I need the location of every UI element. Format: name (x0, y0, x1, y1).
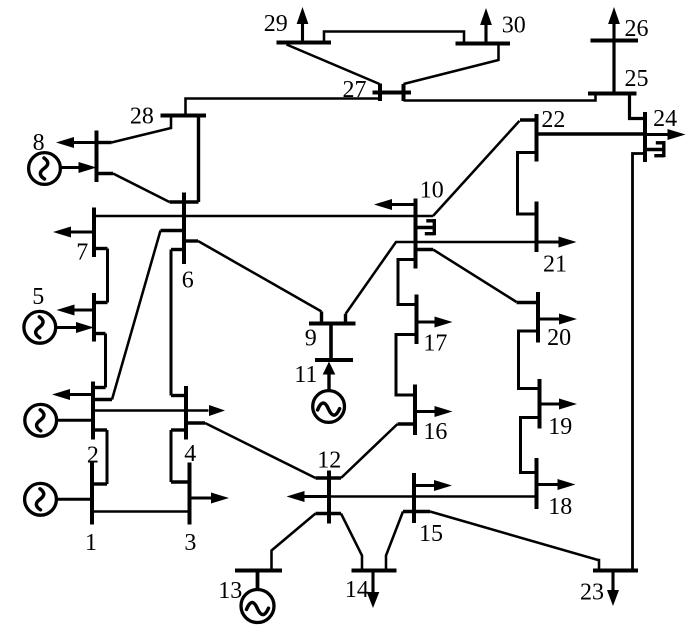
line 6-9 (198, 241, 322, 312)
svg-text:26: 26 (625, 16, 649, 42)
shunt capacitor at bus 24 (662, 141, 665, 157)
load arrow at bus 10 (374, 199, 392, 210)
line 25-27 (404, 94, 596, 101)
line 9-10 (346, 242, 416, 314)
bus 21 bar (535, 202, 539, 253)
load arrow at bus 3 (211, 493, 229, 504)
load arrow at bus 21 (559, 237, 577, 248)
line 22-24 (537, 132, 646, 135)
svg-text:17: 17 (423, 331, 447, 357)
generator lead at bus 1 (56, 498, 92, 501)
bus 14 bar (352, 569, 397, 573)
load arrow at bus 29 (297, 7, 309, 24)
stub at bus 22 top (520, 118, 537, 121)
stub at bus 10 (416, 248, 434, 251)
generator G2 (25, 404, 57, 436)
stub at bus 9 right (344, 314, 347, 324)
step 18-19 (521, 418, 540, 473)
bus 20 bar (536, 292, 540, 343)
bus 4 bar (184, 386, 188, 440)
svg-text:12: 12 (317, 448, 341, 474)
stub at bus 4 top (171, 394, 186, 397)
step 21-22 (518, 153, 537, 215)
line 23-24 (633, 154, 646, 571)
bus 16 bar (413, 385, 417, 436)
bus 26 bar (591, 39, 639, 43)
load arrow at bus 5 (57, 305, 75, 316)
bus 25 bar (588, 92, 637, 96)
bus 28 bar (161, 114, 207, 118)
load arrow at bus 16 (435, 406, 453, 417)
svg-text:13: 13 (218, 578, 242, 604)
line 6-10 (94, 215, 433, 218)
bus 5 bar (92, 293, 96, 342)
svg-text:21: 21 (543, 251, 567, 277)
stub at bus 1 top (92, 482, 107, 485)
line 12-16 (341, 424, 398, 478)
bus 12 bar (327, 471, 331, 524)
load arrow at bus 4 (209, 405, 225, 416)
generator lead at bus 13 (256, 571, 260, 592)
line 2-4 (93, 409, 209, 412)
svg-text:30: 30 (502, 13, 526, 39)
stub at bus 2 bottom (93, 428, 107, 431)
bus 17 bar (415, 295, 419, 345)
stub at bus 8 top (97, 141, 112, 144)
line 27-30 (404, 44, 499, 85)
stub for line 4-12 (186, 421, 205, 424)
line 25-26 (612, 41, 615, 94)
bus 29 bar (277, 41, 332, 45)
bus 8 bar (95, 131, 99, 183)
line 2-5 (104, 334, 107, 388)
line 1-2 (106, 430, 109, 484)
load arrow at bus 7 (53, 227, 71, 238)
svg-text:1: 1 (85, 530, 97, 556)
line 12-13 (272, 514, 316, 571)
svg-text:25: 25 (625, 66, 649, 92)
line 27-28 (186, 99, 381, 116)
load arrow at bus 17 (435, 317, 453, 328)
generator G1 (25, 483, 57, 515)
line 27-29 (287, 45, 380, 85)
load arrow at bus 24 (668, 129, 686, 140)
generator arrow at bus 8 (79, 162, 97, 173)
step 19-20 (519, 331, 540, 389)
line 1-3 (92, 510, 190, 513)
line 12-14 (341, 514, 362, 571)
load arrow at bus 15 (434, 480, 452, 491)
bus 27 right bar (402, 84, 406, 101)
bus 30 bar (456, 42, 511, 46)
lower tick at bus 15 (403, 510, 430, 513)
svg-text:5: 5 (32, 284, 44, 310)
svg-text:7: 7 (76, 239, 88, 265)
svg-text:23: 23 (580, 579, 604, 605)
bus 1 bar (90, 463, 94, 525)
bus 11 bar (315, 358, 353, 362)
shunt capacitor at bus 10 (433, 219, 436, 235)
line 9-11 (329, 324, 333, 361)
stub for line 2-6 (93, 398, 112, 401)
load arrow at bus 14 (367, 592, 380, 608)
bus 10 bar (414, 199, 418, 269)
lower tick at bus 12 (316, 512, 342, 515)
line 15-18 (414, 495, 537, 498)
generator arrow at bus 5 (76, 322, 94, 333)
bus 3 bar (188, 463, 192, 525)
stub at bus 16 (398, 422, 416, 425)
line 8-28 (112, 116, 172, 143)
load arrow at bus 20 (559, 314, 577, 325)
step 16-17 (396, 335, 417, 396)
tick at bus 6 for line 9 (184, 239, 198, 242)
load arrow at bus 18 (558, 479, 576, 490)
line 6-28 (197, 116, 200, 203)
bus 6 bar (182, 193, 186, 265)
bus 13 bar (235, 569, 282, 573)
bus 18 bar (535, 458, 539, 509)
line 4-6 (170, 250, 173, 396)
bus 2 bar (91, 382, 95, 440)
svg-text:9: 9 (305, 326, 317, 352)
stub at bus 8 bottom (97, 172, 114, 175)
stub at bus 5 bottom (94, 332, 106, 335)
bus 15 bar (412, 473, 416, 523)
upper tick at bus 12 (316, 476, 342, 479)
bus 23 bar (593, 569, 638, 573)
line 6-8 (113, 174, 170, 203)
line 5-7 (106, 249, 109, 303)
generator G13 (241, 590, 274, 623)
svg-text:14: 14 (345, 577, 369, 603)
line 2-6 (112, 231, 161, 400)
tick at bus 6 for line 2 (161, 229, 185, 232)
stub at bus 3 top (171, 480, 190, 483)
svg-text:20: 20 (547, 325, 571, 351)
load arrow at bus 23 (607, 590, 619, 606)
stub at bus 4 bottom (171, 428, 186, 431)
svg-text:10: 10 (420, 178, 444, 204)
svg-text:6: 6 (182, 268, 194, 294)
svg-text:29: 29 (264, 11, 288, 37)
bus 19 bar (538, 379, 542, 429)
svg-text:24: 24 (653, 106, 677, 132)
bus 9 bar (309, 322, 356, 326)
bus 7 bar (92, 208, 96, 258)
stub at bus 9 left (320, 312, 323, 324)
line 3-4 (170, 430, 173, 482)
svg-text:11: 11 (294, 362, 317, 388)
generator G8 (29, 153, 61, 185)
line 4-12 (205, 423, 316, 478)
generator G11 (313, 391, 345, 423)
line 29-30 (324, 32, 464, 44)
tick at bus 6 for line 4 (171, 248, 184, 251)
svg-text:22: 22 (541, 107, 565, 133)
load arrow at bus 2 (52, 389, 70, 400)
line 14-15 (386, 512, 403, 571)
bus 24 bar (643, 112, 647, 162)
generator arrow at bus 11 (323, 362, 336, 375)
tick at bus 6 for lines 8 and 28 (170, 200, 199, 203)
step 10-17 (398, 260, 417, 305)
svg-text:16: 16 (423, 419, 447, 445)
stub at bus 2 top (93, 386, 106, 389)
generator lead at bus 2 (57, 419, 94, 422)
stub at bus 5 top (94, 301, 108, 304)
line 10-20 (433, 250, 517, 303)
load arrow at bus 26 (608, 7, 620, 24)
svg-text:19: 19 (548, 414, 572, 440)
svg-text:18: 18 (548, 494, 572, 520)
load arrow at bus 12 (287, 491, 305, 502)
load arrow at bus 19 (559, 399, 577, 410)
line 12-15 (329, 495, 414, 498)
svg-text:28: 28 (130, 103, 154, 129)
stub at bus 20 top (517, 301, 539, 304)
bus 27 left bar (378, 84, 382, 102)
stub at bus 7 bottom (94, 247, 108, 250)
line 10-21 (416, 241, 537, 244)
bus 27 link (373, 91, 412, 95)
svg-text:15: 15 (419, 521, 443, 547)
bus 22 bar (535, 114, 539, 162)
line 15-23 (430, 512, 599, 571)
load arrow at bus 8 (56, 137, 74, 148)
load arrow at bus 30 (480, 8, 492, 25)
line 10-22 (433, 121, 520, 216)
line 24-25 (630, 94, 646, 119)
generator G5 (24, 311, 56, 343)
svg-text:3: 3 (184, 530, 196, 556)
svg-text:4: 4 (184, 441, 196, 467)
